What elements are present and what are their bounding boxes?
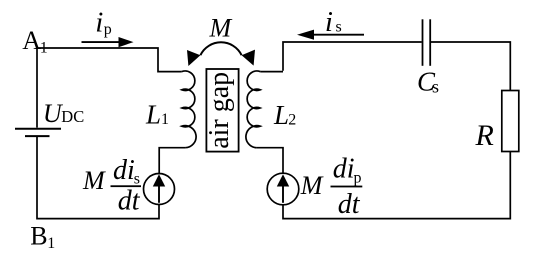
svg-text:i: i (95, 7, 103, 39)
svg-text:B: B (30, 222, 47, 251)
svg-text:1: 1 (161, 111, 169, 128)
svg-text:2: 2 (288, 111, 296, 128)
svg-text:air gap: air gap (204, 72, 235, 149)
svg-text:M: M (209, 14, 233, 43)
svg-text:s: s (336, 19, 342, 36)
svg-text:A: A (22, 26, 41, 55)
svg-text:L: L (273, 100, 289, 130)
svg-text:dt: dt (118, 185, 141, 216)
svg-text:L: L (145, 100, 161, 130)
svg-text:1: 1 (47, 235, 55, 252)
svg-text:M: M (300, 171, 324, 200)
svg-text:R: R (475, 119, 494, 152)
svg-text:p: p (104, 21, 112, 38)
svg-text:s: s (432, 77, 439, 97)
svg-text:di: di (333, 154, 355, 185)
svg-text:di: di (113, 155, 135, 186)
svg-text:DC: DC (61, 107, 84, 126)
svg-text:M: M (82, 166, 106, 195)
svg-text:1: 1 (40, 40, 48, 57)
svg-text:dt: dt (338, 189, 361, 220)
svg-text:i: i (325, 6, 333, 38)
svg-text:p: p (354, 170, 362, 187)
